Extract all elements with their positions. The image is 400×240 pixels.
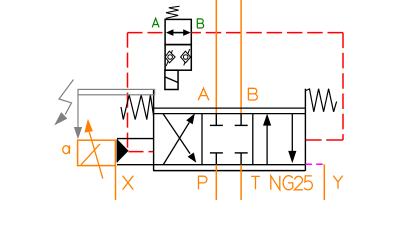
proportional solenoid box xyxy=(78,140,116,165)
label B pilot xyxy=(197,19,203,28)
crossed arrow 1 xyxy=(163,113,195,164)
main valve bottom edge xyxy=(117,164,305,166)
check valve CV1 xyxy=(165,50,175,66)
blocked port top left xyxy=(210,114,223,126)
pilot valve box 2 xyxy=(165,45,191,71)
work line A xyxy=(215,0,217,114)
pilot line red left xyxy=(128,33,166,152)
pilot line red right xyxy=(191,33,343,140)
label a xyxy=(63,145,70,153)
check valve CV2 xyxy=(181,49,191,65)
feedback bar gray xyxy=(78,89,155,94)
main valve right edge xyxy=(304,89,306,171)
label X xyxy=(123,176,134,190)
main valve top bar xyxy=(154,108,306,114)
label NG25 xyxy=(271,176,313,190)
work line B xyxy=(240,0,242,114)
port line X xyxy=(115,166,117,200)
crossed arrow 2 xyxy=(163,114,196,163)
blocked port bottom left xyxy=(210,153,223,165)
left spring xyxy=(121,95,154,120)
label T xyxy=(251,176,260,189)
pilot valve U1 box 1 xyxy=(165,19,191,44)
drain line magenta xyxy=(305,163,324,165)
label A pilot xyxy=(152,18,159,27)
lever arrow gray xyxy=(54,80,73,126)
main valve left edge xyxy=(153,89,155,170)
main valve inner edge 2 xyxy=(252,114,254,165)
right spring xyxy=(306,89,337,112)
port line P xyxy=(215,165,217,200)
blocked port bottom right xyxy=(235,153,248,165)
pilot connector box xyxy=(117,139,154,163)
port line Y xyxy=(323,164,325,200)
pilot spring S1 xyxy=(166,6,180,18)
pilot valve arrow xyxy=(166,29,191,36)
label A xyxy=(198,88,209,100)
flow arrow down xyxy=(288,114,296,164)
label P xyxy=(199,176,207,189)
solenoid arrow xyxy=(84,119,102,179)
blocked port top right xyxy=(235,114,248,126)
pilot ramp box xyxy=(165,70,178,89)
pilot line red bottom segment xyxy=(306,139,344,141)
flow arrow up xyxy=(263,114,271,165)
label Y xyxy=(333,176,342,189)
solenoid slash xyxy=(81,144,100,165)
label B xyxy=(248,88,257,100)
port line T xyxy=(240,165,242,200)
pilot triangle xyxy=(117,139,128,162)
main valve bottom bar xyxy=(153,170,305,172)
feedback rod gray xyxy=(74,95,82,140)
main valve inner edge 1 xyxy=(201,114,203,165)
